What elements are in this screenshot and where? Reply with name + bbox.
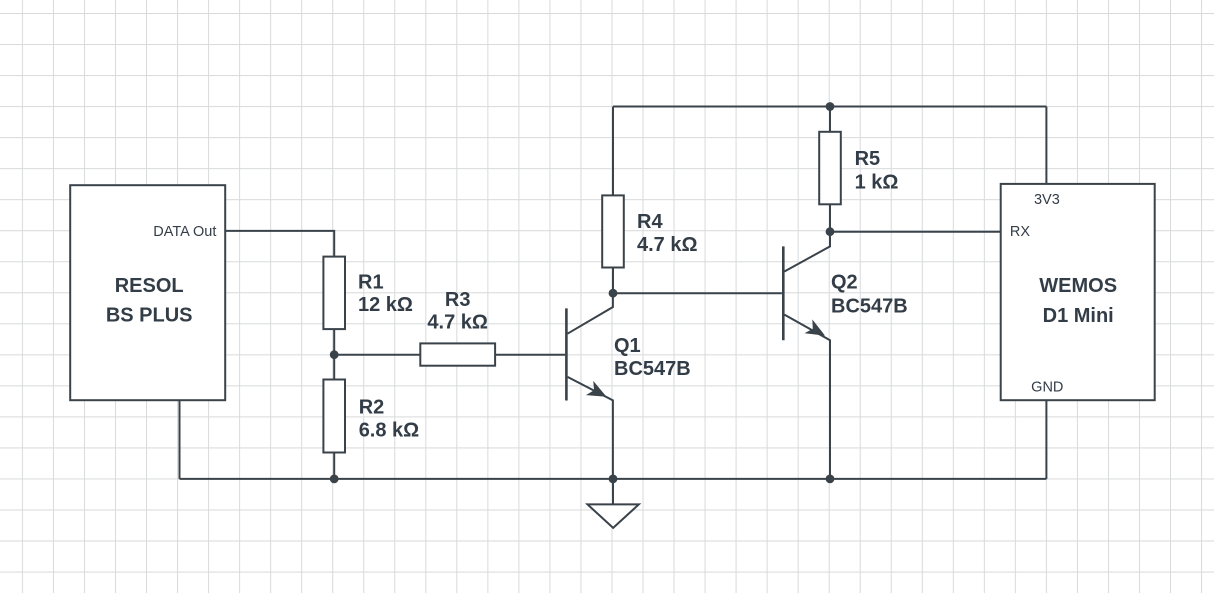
svg-text:R5: R5 [855, 148, 881, 170]
wire junction to R3 left [334, 354, 420, 356]
svg-text:1 kΩ: 1 kΩ [855, 172, 899, 194]
svg-text:Q2: Q2 [831, 272, 858, 294]
box WEMOS D1 Mini [1001, 184, 1155, 400]
wire R5 top to rail [829, 107, 831, 132]
svg-text:R3: R3 [445, 289, 471, 311]
svg-text:D1 Mini: D1 Mini [1043, 305, 1114, 327]
resistor R2 [323, 380, 419, 453]
svg-text:BC547B: BC547B [614, 358, 691, 380]
wire DATA Out to R1 top [225, 231, 334, 257]
svg-text:12 kΩ: 12 kΩ [358, 294, 413, 316]
wire rail riser to WEMOS 3V3 [1045, 107, 1047, 184]
node rail/Q1 emitter junction [609, 475, 618, 484]
wire R4 top to 3V3 rail [612, 107, 614, 196]
svg-text:6.8 kΩ: 6.8 kΩ [359, 420, 420, 442]
svg-text:BS PLUS: BS PLUS [106, 304, 193, 326]
wire R4 bottom to base junction [612, 268, 614, 294]
svg-text:WEMOS: WEMOS [1039, 275, 1117, 297]
svg-text:R4: R4 [637, 211, 663, 233]
node rail/Q2 emitter junction [826, 475, 835, 484]
svg-text:Q1: Q1 [614, 335, 641, 357]
wire R2 bottom to ground rail [333, 453, 335, 479]
wire left box bottom drop [179, 400, 181, 479]
resistor R3 [420, 289, 495, 366]
node junction R1/R2/R3 [330, 350, 339, 359]
wire junction to Q2 base [613, 292, 782, 294]
wire ground rail [180, 478, 1047, 480]
node R5 / Q2 collector / RX junction [826, 227, 835, 236]
transistor Q2 [783, 232, 907, 479]
svg-text:3V3: 3V3 [1034, 192, 1060, 208]
node top rail / R5 junction [826, 102, 835, 111]
svg-text:GND: GND [1031, 380, 1063, 396]
wire 3V3 top rail [613, 106, 1046, 108]
svg-text:BC547B: BC547B [831, 295, 908, 317]
svg-text:DATA Out: DATA Out [153, 224, 216, 240]
svg-text:4.7 kΩ: 4.7 kΩ [427, 311, 488, 333]
svg-text:4.7 kΩ: 4.7 kΩ [637, 234, 698, 256]
ground [588, 479, 639, 528]
wire R3 right to Q1 base [495, 354, 565, 356]
node rail/R2 junction [330, 475, 339, 484]
node Q1 collector / Q2 base junction [609, 289, 618, 298]
transistor Q1 [566, 293, 690, 479]
resistor R5 [819, 132, 898, 205]
wire R1 bottom to R2 top [333, 329, 335, 379]
resistor R1 [323, 257, 413, 330]
svg-text:R1: R1 [358, 272, 384, 294]
resistor R4 [602, 195, 697, 267]
box RESOL BS PLUS [70, 185, 225, 400]
wire RX to WEMOS [830, 231, 1001, 233]
wire right riser to WEMOS GND [1045, 400, 1047, 479]
wire R5 bottom to RX node [829, 204, 831, 231]
svg-text:RX: RX [1010, 224, 1030, 240]
svg-text:RESOL: RESOL [115, 275, 184, 297]
svg-text:R2: R2 [359, 396, 385, 418]
